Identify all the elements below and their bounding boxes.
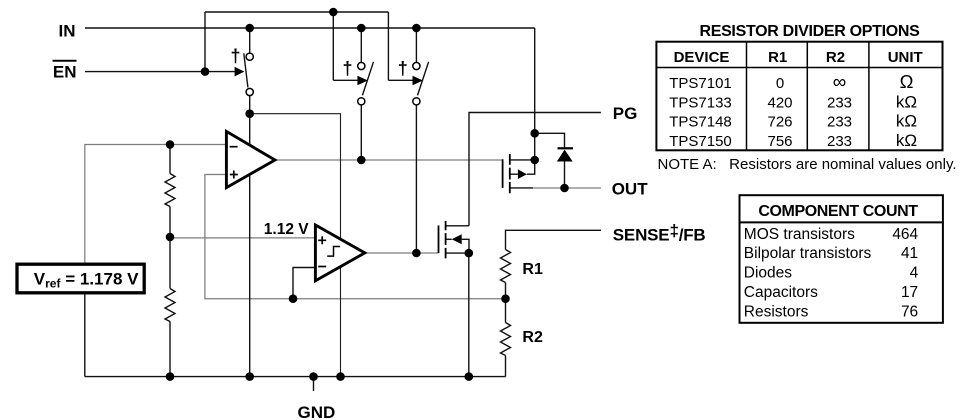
svg-text:MOS transistors: MOS transistors (744, 226, 855, 243)
svg-text:233: 233 (827, 94, 852, 111)
svg-text:756: 756 (767, 133, 792, 150)
svg-text:Ω: Ω (900, 71, 914, 92)
svg-text:233: 233 (827, 133, 852, 150)
svg-text:IN: IN (59, 22, 76, 41)
svg-text:R1: R1 (522, 261, 543, 278)
svg-text:R1: R1 (768, 49, 787, 66)
svg-text:233: 233 (827, 114, 852, 131)
svg-text:GND: GND (298, 403, 336, 420)
svg-text:†: † (342, 58, 352, 78)
svg-text:OUT: OUT (612, 180, 649, 199)
svg-text:420: 420 (767, 94, 792, 111)
svg-text:EN: EN (53, 63, 77, 82)
svg-text:TPS7150: TPS7150 (669, 133, 732, 150)
svg-text:RESISTOR DIVIDER OPTIONS: RESISTOR DIVIDER OPTIONS (699, 23, 920, 40)
svg-text:41: 41 (901, 245, 918, 262)
svg-text:TPS7148: TPS7148 (669, 114, 732, 131)
svg-text:∞: ∞ (833, 72, 847, 93)
svg-text:DEVICE: DEVICE (674, 49, 730, 66)
svg-text:Resistors: Resistors (744, 303, 809, 320)
svg-text:R2: R2 (522, 329, 543, 346)
svg-text:PG: PG (613, 104, 638, 123)
svg-text:kΩ: kΩ (896, 92, 917, 111)
svg-text:R2: R2 (826, 49, 845, 66)
svg-text:SENSE‡/FB: SENSE‡/FB (613, 221, 706, 245)
svg-text:TPS7101: TPS7101 (669, 75, 732, 92)
svg-text:Capacitors: Capacitors (744, 284, 818, 301)
svg-text:COMPONENT COUNT: COMPONENT COUNT (758, 203, 918, 220)
svg-text:76: 76 (901, 303, 918, 320)
svg-text:kΩ: kΩ (896, 131, 917, 150)
svg-text:†: † (398, 58, 408, 78)
svg-text:Bilpolar transistors: Bilpolar transistors (744, 245, 872, 262)
svg-text:TPS7133: TPS7133 (669, 94, 732, 111)
svg-text:kΩ: kΩ (896, 112, 917, 131)
svg-text:17: 17 (901, 284, 918, 301)
svg-text:4: 4 (910, 265, 919, 282)
svg-text:†: † (230, 46, 240, 66)
svg-text:1.12 V: 1.12 V (264, 221, 309, 238)
svg-text:Diodes: Diodes (744, 265, 792, 282)
svg-text:726: 726 (767, 114, 792, 131)
svg-text:NOTE A: Resistors are nomina: NOTE A: Resistors are nominal values onl… (658, 156, 957, 173)
svg-text:464: 464 (892, 226, 918, 243)
svg-text:0: 0 (776, 75, 784, 92)
svg-text:UNIT: UNIT (888, 49, 923, 66)
